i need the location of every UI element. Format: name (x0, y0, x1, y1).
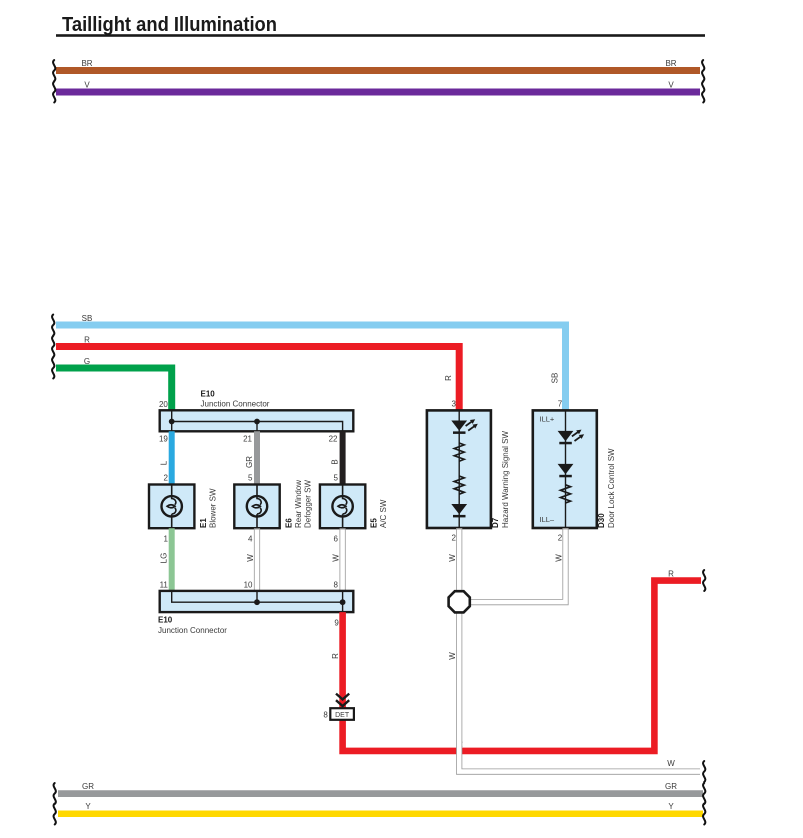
break symbol BR right (702, 60, 704, 81)
D7 diode (451, 504, 467, 517)
svg-text:W: W (331, 554, 340, 562)
break symbol V left (53, 82, 55, 103)
svg-text:Junction Connector: Junction Connector (201, 400, 270, 409)
svg-text:GR: GR (665, 782, 677, 791)
svg-text:2: 2 (163, 474, 168, 483)
svg-text:Door Lock Control SW: Door Lock Control SW (607, 448, 616, 528)
svg-text:SB: SB (82, 314, 93, 323)
D7 resistor 1 (454, 443, 464, 461)
svg-text:Y: Y (668, 802, 674, 811)
svg-text:A/C SW: A/C SW (379, 499, 388, 528)
break symbol GR right (703, 783, 705, 804)
wire V (top violet) (56, 89, 700, 96)
D30 diode (558, 464, 574, 477)
svg-text:8: 8 (323, 710, 328, 719)
break symbol BR left (53, 60, 55, 81)
svg-text:5: 5 (334, 474, 339, 483)
switch E1 Blower SW (149, 485, 194, 529)
D30 Door Lock Control SW (533, 410, 597, 528)
wire W E6 pin4 to E10 pin10 (254, 528, 260, 592)
svg-text:8: 8 (334, 581, 339, 590)
svg-text:BR: BR (81, 59, 92, 68)
junction dot E10 top pin20 (169, 419, 175, 425)
break symbol SB left (52, 315, 54, 336)
wire GR (bottom gray) (58, 790, 703, 797)
svg-text:V: V (84, 81, 90, 90)
svg-text:E1: E1 (199, 518, 208, 528)
junction connector E10 (bottom) (160, 591, 354, 612)
wire L (blue) E10 pin19 to E1 pin2 (169, 431, 175, 486)
junction dot E10 bottom pin8 (340, 599, 346, 605)
svg-text:R: R (668, 569, 674, 578)
wire W D7 pin2 to splice node (456, 528, 462, 591)
break symbol GR left (54, 783, 56, 804)
svg-text:5: 5 (248, 474, 253, 483)
svg-text:W: W (246, 554, 255, 562)
svg-text:Rear Window: Rear Window (294, 480, 303, 528)
switch E6 Rear Window Defogger SW (234, 485, 279, 529)
junction dot E10 top pin21 (254, 419, 260, 425)
wire GR (gray) E10 pin21 to E6 pin5 (254, 431, 260, 486)
svg-text:L: L (160, 460, 169, 465)
svg-text:D30: D30 (597, 513, 606, 528)
svg-text:V: V (668, 81, 674, 90)
svg-text:1: 1 (163, 535, 168, 544)
svg-text:20: 20 (159, 400, 168, 409)
wire SB (sky blue) to D30 pin 7 (56, 325, 566, 412)
wire R from E10 pin9 to right edge (343, 581, 701, 751)
svg-text:21: 21 (243, 435, 252, 444)
svg-text:E5: E5 (370, 518, 379, 528)
svg-text:Junction Connector: Junction Connector (158, 626, 227, 635)
D7 Hazard Warning Signal SW (427, 410, 491, 528)
svg-text:Taillight and Illumination: Taillight and Illumination (62, 14, 277, 36)
svg-text:22: 22 (329, 435, 338, 444)
svg-text:Y: Y (85, 802, 91, 811)
wire Y (bottom yellow) (58, 811, 703, 818)
wire W D30 pin2 to splice node (470, 528, 566, 602)
svg-text:E10: E10 (201, 390, 216, 399)
svg-text:11: 11 (160, 581, 169, 590)
svg-text:G: G (84, 357, 90, 366)
wire R (red) to D7 pin 3 (56, 347, 459, 413)
svg-text:R: R (84, 336, 90, 345)
wire BR (top brown) (56, 67, 700, 74)
svg-text:SB: SB (551, 373, 560, 384)
svg-text:6: 6 (334, 535, 339, 544)
svg-text:Defogger SW: Defogger SW (304, 480, 313, 528)
break symbol V right (702, 82, 704, 103)
wire G (green) to E10 pin 20 (56, 368, 172, 412)
svg-text:GR: GR (245, 456, 254, 468)
DET box (330, 708, 354, 720)
svg-text:D7: D7 (491, 517, 500, 528)
svg-text:E10: E10 (158, 616, 173, 625)
break symbol G left (52, 358, 54, 379)
svg-text:2: 2 (558, 534, 563, 543)
D30 LED (558, 430, 585, 445)
break symbol Y right (703, 804, 705, 825)
wire W E5 pin6 to E10 pin8 (340, 528, 346, 592)
svg-text:2: 2 (452, 534, 457, 543)
svg-text:W: W (448, 652, 457, 660)
svg-text:ILL+: ILL+ (540, 415, 555, 424)
svg-text:W: W (448, 554, 457, 562)
svg-text:E6: E6 (284, 518, 293, 528)
break symbol W right (703, 761, 705, 782)
svg-text:BR: BR (665, 59, 676, 68)
wire W splice node to right edge (459, 613, 700, 772)
svg-text:B: B (331, 459, 340, 464)
wire B (black) E10 pin22 to E5 pin5 (340, 431, 346, 486)
svg-text:ILL–: ILL– (540, 515, 555, 524)
svg-text:W: W (667, 759, 675, 768)
svg-text:GR: GR (82, 782, 94, 791)
svg-text:10: 10 (244, 581, 253, 590)
svg-text:3: 3 (452, 400, 457, 409)
splice node (octagon) (449, 591, 470, 612)
junction connector E10 (top) (160, 410, 354, 431)
E10 top internal bus (172, 410, 343, 431)
title: Taillight and Illumination (56, 14, 705, 37)
switch E5 A/C SW (320, 485, 365, 529)
junction dot E10 bottom pin10 (254, 599, 260, 605)
svg-text:4: 4 (248, 535, 253, 544)
svg-text:19: 19 (159, 435, 168, 444)
connector pass-through chevrons (336, 694, 349, 706)
svg-text:LG: LG (160, 553, 169, 564)
svg-text:9: 9 (334, 618, 339, 627)
break symbol R right (703, 570, 705, 591)
svg-text:R: R (331, 653, 340, 659)
D7 resistor 2 (454, 476, 464, 494)
svg-text:DET: DET (335, 712, 350, 719)
wire LG E1 pin1 to E10 pin11 (169, 528, 175, 592)
D7 LED (451, 419, 478, 434)
D30 resistor (561, 485, 571, 503)
svg-text:R: R (444, 375, 453, 381)
svg-text:Blower SW: Blower SW (208, 488, 217, 528)
svg-text:7: 7 (558, 400, 563, 409)
break symbol Y left (54, 804, 56, 825)
E10 bottom internal bus (172, 591, 343, 612)
svg-text:Hazard Warning Signal SW: Hazard Warning Signal SW (501, 430, 510, 528)
svg-text:W: W (554, 554, 563, 562)
break symbol R left (52, 336, 54, 357)
